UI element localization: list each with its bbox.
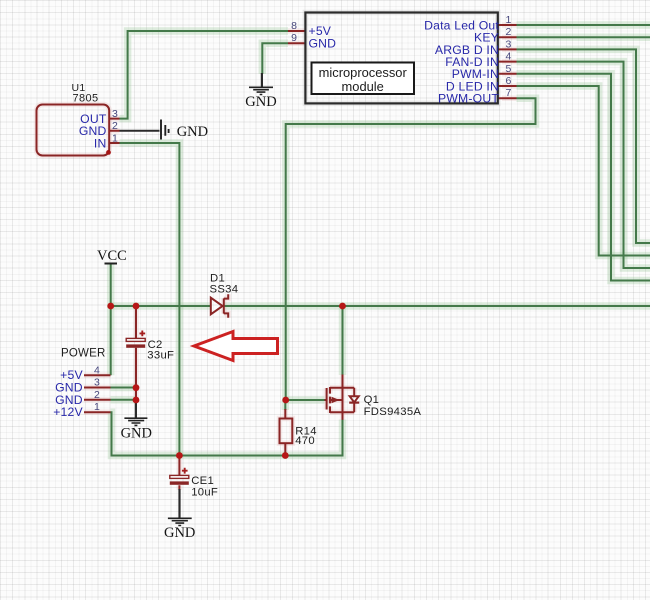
svg-text:microprocessor: microprocessor <box>319 65 408 80</box>
svg-text:SS34: SS34 <box>210 284 239 296</box>
svg-text:3: 3 <box>94 377 100 389</box>
svg-text:9: 9 <box>291 32 297 44</box>
svg-text:6: 6 <box>506 75 512 87</box>
svg-text:1: 1 <box>112 132 118 144</box>
svg-text:1: 1 <box>94 401 100 413</box>
svg-text:CE1: CE1 <box>191 475 214 487</box>
svg-text:GND: GND <box>121 426 152 442</box>
svg-text:1: 1 <box>506 14 512 26</box>
svg-text:3: 3 <box>112 108 118 120</box>
svg-text:8: 8 <box>291 20 297 32</box>
svg-text:VCC: VCC <box>97 248 127 264</box>
svg-text:GND: GND <box>309 36 337 50</box>
svg-text:2: 2 <box>506 26 512 38</box>
svg-text:module: module <box>342 79 384 94</box>
svg-text:+12V: +12V <box>53 405 83 419</box>
svg-text:GND: GND <box>177 124 208 140</box>
svg-text:Q1: Q1 <box>364 394 380 406</box>
svg-text:FDS9435A: FDS9435A <box>364 406 422 418</box>
svg-text:7805: 7805 <box>73 93 99 105</box>
svg-text:GND: GND <box>245 94 276 110</box>
svg-text:GND: GND <box>164 525 195 541</box>
svg-text:IN: IN <box>94 136 107 150</box>
svg-text:2: 2 <box>94 389 100 401</box>
svg-text:33uF: 33uF <box>147 349 174 361</box>
svg-text:10uF: 10uF <box>191 486 218 498</box>
svg-text:470: 470 <box>295 435 315 447</box>
svg-text:3: 3 <box>506 38 512 50</box>
svg-text:2: 2 <box>112 120 118 132</box>
svg-text:4: 4 <box>94 364 100 376</box>
svg-text:7: 7 <box>506 87 512 99</box>
svg-text:POWER: POWER <box>61 348 105 360</box>
svg-text:PWM-OUT: PWM-OUT <box>438 92 499 106</box>
svg-text:4: 4 <box>506 51 512 63</box>
svg-text:5: 5 <box>506 63 512 75</box>
